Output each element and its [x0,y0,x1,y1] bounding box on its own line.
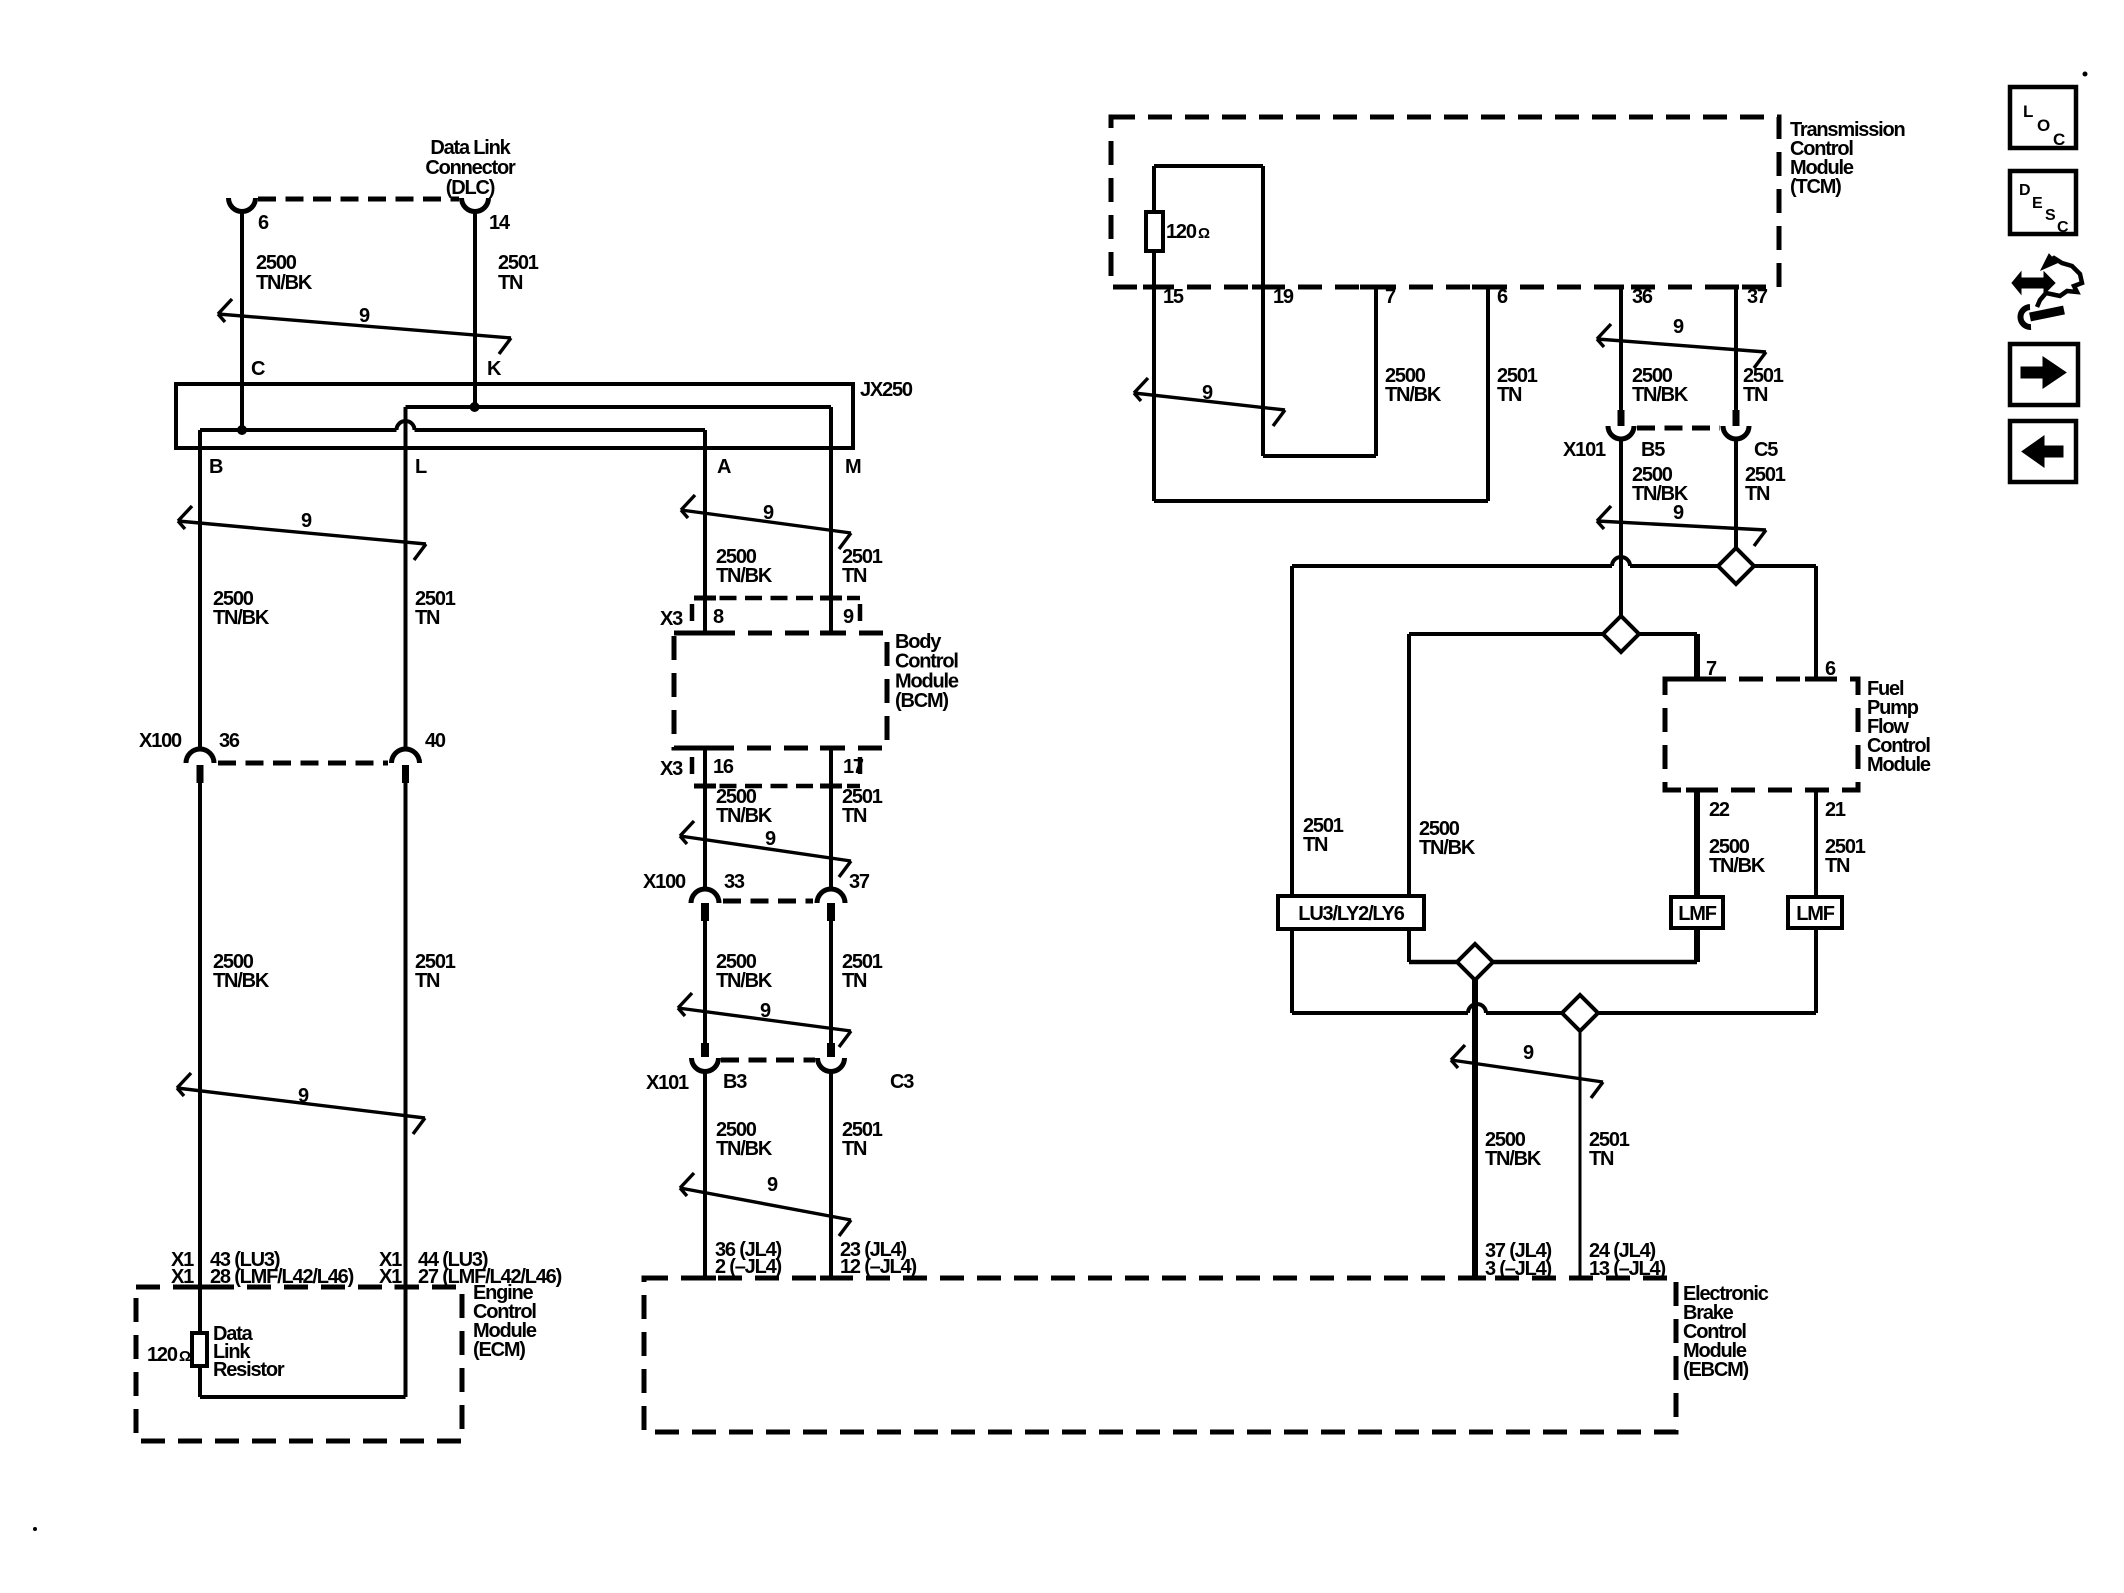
connector X100 dashed body [218,761,388,766]
svg-text:TN/BK: TN/BK [256,272,313,294]
svg-text:TN/BK: TN/BK [1385,384,1442,406]
svg-text:TN: TN [1303,834,1328,856]
svg-text:(DLC): (DLC) [446,177,495,199]
label twisted-pair 9 [1202,382,1213,404]
label EBCM pin 37 (JL4) [1485,1240,1552,1262]
junction dot C on lower bus [237,425,247,435]
label LMF [1678,903,1716,925]
label ECM pin X1 27 (LMF/L42/L46) [379,1266,562,1288]
svg-text:9: 9 [1673,502,1684,524]
label circuit 2501 TN [842,786,883,827]
connector X3 lower band [692,757,860,786]
svg-text:X3: X3 [660,608,683,630]
speck top right [2083,72,2088,77]
svg-text:8: 8 [713,606,724,628]
label circuit 2500 TN/BK [1385,365,1442,406]
label X3 pin 9 [843,606,854,628]
label EBCM pin 23 (JL4) [840,1239,907,1261]
label X100 pin 40 [425,730,446,752]
wire 2501 TN top bus with hop [1292,557,1816,566]
label circuit 2501 TN [498,252,539,294]
label LMF [1796,903,1834,925]
label circuit 2501 TN [415,588,456,629]
label circuit 2500 TN/BK [716,786,773,827]
svg-text:C: C [2053,130,2065,149]
wire 2500 TN/BK X101 B5 to splice [1619,439,1623,634]
twisted-pair marker mid second [680,821,851,877]
wire 2500 TN/BK fuel pump pin22 down [1694,790,1700,962]
svg-text:2501: 2501 [498,252,539,274]
label twisted-pair 9 [1523,1042,1534,1064]
svg-text:21: 21 [1825,799,1846,821]
connector X100 male pin 36 [197,765,204,783]
connector X100 male pin 40 [402,765,409,783]
connector X100 cup pin33 [691,889,719,903]
splice diamond on 2501 bus [1718,548,1754,584]
svg-text:TN: TN [1589,1148,1614,1170]
svg-text:19: 19 [1273,286,1294,308]
connector X101 cup B5 [1608,426,1634,439]
wire 2501 TN JX250 L down to X100 [404,407,408,749]
svg-text:(TCM): (TCM) [1790,176,1841,198]
svg-text:9: 9 [1202,382,1213,404]
svg-text:120: 120 [1166,221,1197,243]
wire 2500 TN/BK drop to LU3 box [1407,634,1411,896]
label Data Link Resistor [213,1323,285,1381]
tick wire crossings fuel pump box [1686,679,1827,790]
resistor Data Link Resistor 120 ohm [192,1333,207,1366]
svg-text:40: 40 [425,730,446,752]
svg-text:L: L [415,456,427,478]
svg-text:9: 9 [767,1174,778,1196]
label circuit 2501 TN [415,951,456,992]
label connector X3 [660,608,683,630]
wire 2500 TN/BK lower bus [1409,960,1697,965]
label 120 ohm [1166,221,1210,243]
connector X101 male pin C3 [827,1043,835,1057]
svg-text:L: L [2023,102,2033,121]
module Fuel Pump Flow Control Module dashed box [1665,679,1858,790]
module TCM dashed box [1111,117,1779,287]
icon LOC box [2010,87,2076,149]
label circuit 2500 TN/BK [716,951,773,992]
svg-text:S: S [2045,207,2056,224]
svg-text:B5: B5 [1641,439,1665,461]
twisted-pair marker TCM 15/19 [1134,378,1285,426]
label TCM pin 19 [1273,286,1294,308]
wire 2500 TN/BK JX250 B down to X100 [198,430,202,749]
label X100 pin 37 [849,871,870,893]
label X101 pin C5 [1754,439,1778,461]
twisted-pair marker B5/C5 [1597,506,1766,546]
svg-text:16: 16 [713,756,734,778]
svg-text:(ECM): (ECM) [473,1339,525,1361]
label X101 pin B3 [723,1071,747,1093]
svg-text:2 (–JL4): 2 (–JL4) [715,1256,782,1278]
label twisted-pair 9 [1673,316,1684,338]
label TCM pin 36 [1632,286,1653,308]
wire 2500 TN/BK X100 to ECM resistor [198,783,202,1333]
wire TCM pin19 to pin7 U [1263,287,1376,456]
svg-text:14: 14 [489,212,511,234]
svg-text:TN/BK: TN/BK [213,970,270,992]
label Data Link Connector (DLC) [425,137,516,199]
connector X101 male pin C5 [1733,410,1740,426]
label TCM pin 15 [1163,286,1184,308]
svg-text:K: K [487,358,502,380]
label EBCM pin 2 (-JL4) [715,1256,782,1278]
svg-text:Ω: Ω [1198,225,1210,242]
wire 2500 TN/BK BCM to X100 [703,748,707,889]
wire 2500 TN/BK X101 to EBCM [703,1072,707,1278]
wire TCM pin19 leg [1261,166,1265,456]
svg-text:7: 7 [1385,286,1396,308]
label connector X100 [139,730,182,752]
connector X101 cup C3 [818,1058,845,1072]
tick wire crossings EBCM top [694,1276,1591,1281]
svg-text:33: 33 [724,871,745,893]
connector X100 cup pin40 [392,749,420,763]
svg-text:TN: TN [842,805,867,827]
connector DLC dashed body [258,197,459,202]
wire 2501 TN bottom bus with hop [1292,1004,1816,1013]
connector DLC pin 14 cup [462,198,489,212]
label twisted-pair 9 [765,828,776,850]
svg-text:X100: X100 [139,730,182,752]
label X101 pin C3 [890,1071,914,1093]
svg-text:TN: TN [1497,384,1522,406]
wire 2500 TN/BK X100 to X101 [703,921,707,1043]
svg-text:9: 9 [298,1085,309,1107]
tick wire crossings TCM bottom [1143,285,1739,290]
svg-text:9: 9 [760,1000,771,1022]
wire TCM pin15 leg [1152,251,1156,501]
label twisted-pair 9 [763,502,774,524]
connector X101 male pin B5 [1618,410,1625,426]
connector X101 dashed body [721,1058,815,1063]
label JX250 pin B [209,456,223,478]
label ECM pin X1 43 (LU3) [171,1249,280,1271]
svg-text:M: M [845,456,861,478]
label circuit 2501 TN [842,951,883,992]
svg-text:TN: TN [842,565,867,587]
wire 2500 TN/BK JX250 A down to BCM [703,430,707,633]
svg-text:LU3/LY2/LY6: LU3/LY2/LY6 [1298,903,1404,925]
svg-text:A: A [717,456,731,478]
icon connector-view with wrench [2012,254,2082,327]
svg-text:LMF: LMF [1678,903,1716,925]
engine application box LU3/LY2/LY6 [1278,896,1424,929]
module EBCM dashed box [644,1278,1676,1432]
svg-text:12 (–JL4): 12 (–JL4) [840,1256,916,1278]
twisted-pair marker EBCM drops [1451,1045,1603,1098]
svg-text:TN: TN [415,970,440,992]
wire JX250 upper bus 2501 [406,405,832,409]
svg-text:C: C [2057,219,2069,236]
twisted-pair marker left lower [177,1073,425,1134]
svg-text:TN/BK: TN/BK [716,1138,773,1160]
wire JX250 lower bus 2500 with hop [200,421,705,430]
twisted-pair marker mid third [678,993,851,1047]
splice diamond on 2501 bottom bus [1562,995,1598,1031]
label circuit 2501 TN [1745,464,1786,505]
label X101 pin B5 [1641,439,1665,461]
connector X101 cup B3 [692,1058,719,1072]
wire 2500 TN/BK TCM pin36 to X101 B5 [1619,287,1623,410]
label Transmission Control Module (TCM) [1790,119,1905,198]
svg-text:TN/BK: TN/BK [716,565,773,587]
label 120 ohm [147,1344,191,1366]
wire 2501 TN splice drop to EBCM pin24 [1579,1013,1582,1278]
svg-text:2500: 2500 [256,252,297,274]
label TCM pin 6 [1497,286,1508,308]
wire 2501 TN X101 to EBCM [829,1072,833,1278]
wire 2501 TN TCM pin37 to X101 C5 [1734,287,1738,410]
wire 2501 TN left drop to LU3 box [1290,566,1294,896]
label fuel pump pin 21 [1825,799,1846,821]
label fuel pump pin 22 [1709,799,1730,821]
label TCM pin 37 [1747,286,1768,308]
icon back-arrow box [2010,421,2076,482]
svg-text:9: 9 [301,510,312,532]
label ECM pin X1 44 (LU3) [379,1249,488,1271]
svg-text:(EBCM): (EBCM) [1683,1359,1749,1381]
module ECM dashed box [136,1287,462,1441]
wire 2501 TN right drop to fuel pump pin6 [1814,566,1818,679]
label LU3/LY2/LY6 [1298,903,1404,925]
label DLC pin 14 [489,212,511,234]
svg-text:TN/BK: TN/BK [716,805,773,827]
svg-text:Data Link: Data Link [430,137,511,159]
svg-text:TN/BK: TN/BK [716,970,773,992]
svg-text:TN/BK: TN/BK [213,607,270,629]
label Body Control Module (BCM) [895,631,959,712]
svg-text:TN/BK: TN/BK [1419,837,1476,859]
svg-text:JX250: JX250 [860,379,913,401]
label JX250 pin L [415,456,427,478]
label fuel pump pin 7 [1706,658,1717,680]
label circuit 2500 TN/BK [1709,836,1766,877]
label circuit 2501 TN [1743,365,1784,406]
svg-text:22: 22 [1709,799,1730,821]
label JX250 pin C [251,358,265,380]
label connector X100 [643,871,686,893]
label JX250 pin M [845,456,861,478]
svg-text:3 (–JL4): 3 (–JL4) [1485,1258,1552,1280]
svg-text:E: E [2032,195,2043,212]
label twisted-pair 9 [298,1085,309,1107]
label circuit 2500 TN/BK [213,951,270,992]
resistor TCM 120 ohm [1146,212,1163,251]
svg-text:C5: C5 [1754,439,1778,461]
label circuit 2501 TN [1589,1129,1630,1170]
svg-text:TN: TN [498,272,523,294]
svg-text:C3: C3 [890,1071,914,1093]
svg-text:9: 9 [359,305,370,327]
junction block JX250 box [176,384,853,448]
svg-text:9: 9 [1673,316,1684,338]
label twisted-pair 9 [1673,502,1684,524]
label X100 pin 33 [724,871,745,893]
wire 2501 TN X100 to X101 [829,921,833,1043]
label circuit 2500 TN/BK [1632,365,1689,406]
tick wire crossings ECM top [189,1285,417,1290]
connector X101 cup C5 [1723,426,1749,439]
wire 2501 TN JX250 M down to BCM [829,407,833,633]
twisted-pair marker mid upper [681,495,851,549]
splice diamond on 2500 bus [1603,616,1639,652]
wire 2500 TN/BK second bus [1409,632,1697,636]
svg-text:9: 9 [843,606,854,628]
svg-text:O: O [2037,116,2050,135]
label EBCM pin 3 (-JL4) [1485,1258,1552,1280]
engine application box LMF right [1788,897,1842,928]
connector X100 cup pin36 [186,749,214,763]
label circuit 2500 TN/BK [256,252,313,294]
label twisted-pair 9 [767,1174,778,1196]
svg-text:Control: Control [895,651,958,673]
svg-text:9: 9 [1523,1042,1534,1064]
connector X101 dashed body [1637,426,1720,431]
module BCM dashed box [674,633,887,748]
label circuit 2501 TN [842,1119,883,1160]
wire 2501 TN DLC pin14 to JX250 K [473,211,477,407]
label X3 pin 8 [713,606,724,628]
splice diamond on 2500 lower bus [1457,944,1493,980]
svg-text:TN: TN [1745,483,1770,505]
label Fuel Pump Flow Control Module [1867,678,1931,776]
connector DLC pin 6 cup [229,198,256,212]
svg-text:9: 9 [763,502,774,524]
icon next-arrow box [2010,344,2078,405]
svg-text:Module: Module [895,670,959,692]
svg-text:B: B [209,456,223,478]
label twisted-pair 9 [359,305,370,327]
svg-text:X101: X101 [646,1072,689,1094]
wire 2500 TN/BK splice drop to EBCM pin37 [1472,962,1478,1278]
wire 2501 TN X100 to ECM [404,783,408,1397]
twisted-pair marker left upper [178,506,426,560]
label TCM pin 7 [1385,286,1396,308]
svg-text:(BCM): (BCM) [895,690,948,712]
svg-text:Connector: Connector [425,157,516,179]
svg-text:9: 9 [765,828,776,850]
label fuel pump pin 6 [1825,658,1836,680]
label JX250 pin A [717,456,731,478]
label Engine Control Module (ECM) [473,1282,537,1361]
wire TCM internal top link [1154,166,1263,212]
label connector X3 [660,758,683,780]
wire 2500 TN/BK DLC pin6 to JX250 C [240,211,244,430]
label X3 pin 17 [843,756,864,778]
label JX250 pin K [487,358,502,380]
twisted-pair marker mid fourth [680,1173,851,1236]
connector X100 male pin 33 [701,903,709,921]
label circuit 2500 TN/BK [213,588,270,629]
svg-text:Ω: Ω [179,1348,191,1365]
tick wire crossings BCM edges [694,598,842,786]
wire 2501 TN below LU3 [1290,929,1294,1013]
svg-text:X101: X101 [1563,439,1606,461]
label EBCM pin 13 (-JL4) [1589,1258,1665,1280]
wire 2501 TN fuel pump pin21 down [1814,790,1818,1013]
svg-text:Resistor: Resistor [213,1359,285,1381]
connector X3 upper band [692,598,860,627]
speck bottom left [33,1527,37,1531]
svg-text:TN: TN [842,970,867,992]
label connector X101 [1563,439,1606,461]
connector X100 cup pin37 [817,889,845,903]
label circuit 2500 TN/BK [716,546,773,587]
svg-text:LMF: LMF [1796,903,1834,925]
svg-text:TN: TN [842,1138,867,1160]
svg-text:37: 37 [849,871,870,893]
junction dot K on upper bus [470,402,480,412]
icon DESC box [2010,171,2076,236]
svg-text:36: 36 [1632,286,1653,308]
wire 2501 TN BCM to X100 [829,748,833,889]
label circuit 2501 TN left [1303,815,1344,856]
wire 2500 TN/BK below LU3 [1407,929,1411,962]
label connector X101 [646,1072,689,1094]
twisted-pair marker TCM 36/37 [1597,324,1766,368]
svg-text:120: 120 [147,1344,178,1366]
svg-text:Module: Module [1867,754,1931,776]
wire TCM pin15 to pin6 U [1154,287,1488,501]
svg-text:Body: Body [895,631,942,653]
svg-text:TN/BK: TN/BK [1485,1148,1542,1170]
label circuit 2500 TN/BK [716,1119,773,1160]
svg-text:X3: X3 [660,758,683,780]
wire 2501 TN X101 C5 to splice [1734,439,1738,548]
label circuit 2500 TN/BK [1632,464,1689,505]
label circuit 2501 TN [1497,365,1538,406]
wire ECM internal U [200,1366,406,1397]
label EBCM pin 24 (JL4) [1589,1240,1656,1262]
label circuit 2500 TN/BK left [1419,818,1476,859]
twisted-pair marker DLC [218,299,511,354]
wire 2500 TN/BK to fuel pump pin7 [1694,634,1700,679]
label ECM pin X1 28 (LMF/L42/L46) [171,1266,354,1288]
label JX250 [860,379,913,401]
connector X100 male pin 37 [827,903,835,921]
svg-text:17: 17 [843,756,864,778]
svg-text:X100: X100 [643,871,686,893]
label X3 pin 16 [713,756,734,778]
connector X100 dashed body [723,899,813,904]
svg-text:TN/BK: TN/BK [1709,855,1766,877]
label twisted-pair 9 [301,510,312,532]
svg-text:TN: TN [1743,384,1768,406]
label twisted-pair 9 [760,1000,771,1022]
connector X101 male pin B3 [701,1043,709,1057]
label EBCM pin 12 (-JL4) [840,1256,916,1278]
svg-text:6: 6 [258,212,269,234]
label circuit 2500 TN/BK [1485,1129,1542,1170]
svg-text:TN: TN [415,607,440,629]
label DLC pin 6 [258,212,269,234]
label Electronic Brake Control Module (EBCM) [1683,1283,1769,1381]
svg-text:TN/BK: TN/BK [1632,384,1689,406]
svg-text:37: 37 [1747,286,1768,308]
svg-text:TN: TN [1825,855,1850,877]
label circuit 2501 TN [842,546,883,587]
svg-text:6: 6 [1497,286,1508,308]
label circuit 2501 TN [1825,836,1866,877]
svg-text:D: D [2019,182,2030,199]
engine application box LMF left [1671,897,1723,928]
svg-text:13 (–JL4): 13 (–JL4) [1589,1258,1665,1280]
